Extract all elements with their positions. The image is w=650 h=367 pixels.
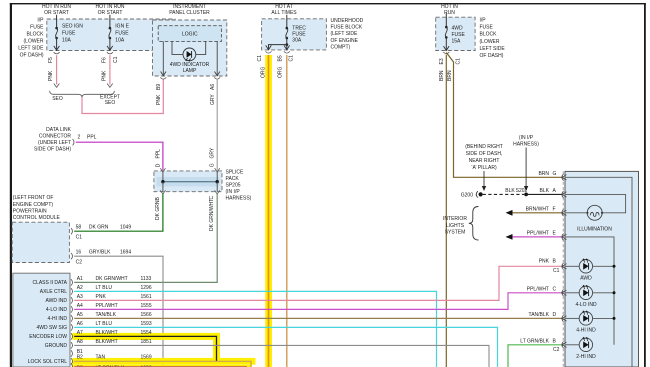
wire lamp branch left — [172, 41, 183, 54]
splice bus bar — [163, 181, 217, 183]
pin B C2 chevron — [562, 341, 567, 348]
svg-text:1561: 1561 — [141, 294, 152, 300]
svg-text:1694: 1694 — [120, 250, 131, 256]
svg-text:SPLICE: SPLICE — [226, 170, 244, 176]
wire BLK pin A internal to lamp — [565, 194, 626, 212]
pin C chevron — [562, 289, 567, 296]
splice C exit chevron — [215, 190, 220, 194]
svg-text:I/P: I/P — [37, 18, 44, 24]
highlight band bottom row — [73, 365, 253, 367]
fuse SEO IGN 10A — [55, 27, 58, 30]
svg-text:HARNESS): HARNESS) — [226, 196, 252, 202]
svg-text:ILLUMINATION: ILLUMINATION — [577, 227, 612, 233]
svg-text:(IN I/P: (IN I/P — [519, 135, 534, 141]
svg-text:1296: 1296 — [141, 285, 152, 291]
svg-text:RUN: RUN — [444, 10, 455, 16]
svg-text:A7: A7 — [77, 330, 83, 336]
svg-text:FUSE: FUSE — [62, 31, 76, 37]
arrow to interior lights F — [506, 210, 513, 216]
svg-text:FUSE: FUSE — [480, 25, 494, 31]
svg-text:LT GRN/BLK: LT GRN/BLK — [520, 338, 549, 344]
pin B1 module — [71, 350, 73, 356]
svg-text:(LOWER: (LOWER — [480, 39, 500, 45]
node splice G entry — [215, 168, 220, 172]
svg-text:DK GRN: DK GRN — [155, 200, 161, 220]
svg-text:GRY: GRY — [210, 147, 216, 158]
svg-text:PPL/WHT: PPL/WHT — [527, 230, 549, 236]
pin A chevron — [562, 191, 567, 198]
arrow to interior lights E — [506, 234, 513, 240]
svg-text:BLK/WHT: BLK/WHT — [96, 339, 118, 345]
pin G chevron — [562, 174, 567, 181]
svg-text:CONTROL MODULE: CONTROL MODULE — [13, 215, 61, 221]
wire PPL DLC to splice SP205 pin D — [76, 142, 163, 170]
svg-text:ORG: ORG — [260, 67, 266, 79]
svg-text:SEO IGN: SEO IGN — [62, 24, 83, 30]
fuse TREC 30A — [286, 27, 289, 30]
wire PPL/WHT 1555 A4 to switch pin C — [74, 293, 561, 310]
wire ORG highlighted from TREC C1 — [268, 55, 270, 367]
svg-text:1555: 1555 — [141, 303, 152, 309]
svg-text:F6: F6 — [102, 57, 108, 63]
connector chevron pin B9 — [160, 77, 166, 79]
fuse IGN E 10A — [109, 27, 112, 30]
svg-text:DK GRN/WHT: DK GRN/WHT — [96, 276, 128, 282]
svg-text:BRN: BRN — [447, 70, 453, 81]
wire TAN/BLK 1566 A5 to switch pin D — [74, 317, 561, 319]
svg-text:E3: E3 — [439, 58, 445, 64]
svg-text:1133: 1133 — [141, 276, 152, 282]
fuse 4WD 15A — [445, 26, 448, 29]
svg-text:(IN I/P: (IN I/P — [226, 189, 241, 195]
svg-text:(UNDER LEFT: (UNDER LEFT — [38, 140, 71, 146]
svg-text:BRN/WHT: BRN/WHT — [526, 206, 549, 212]
pin A2 module — [71, 288, 73, 294]
svg-text:PPL: PPL — [155, 149, 161, 159]
svg-text:F: F — [553, 206, 556, 212]
wire stub fuse IGN E — [109, 15, 111, 28]
svg-text:LT BLU: LT BLU — [96, 321, 113, 327]
wire BLK S202 to switch pin A — [526, 193, 561, 195]
wire branch to C1 — [269, 45, 287, 50]
pin B3 module (clipped) — [71, 363, 73, 367]
wire PNK from fuse F6 — [109, 55, 111, 84]
wire TAN 1569 B2 highlighted — [74, 361, 251, 367]
pin 2 DLC — [73, 139, 75, 145]
instrument panel cluster box U-cluster — [153, 20, 227, 76]
svg-text:FUSE BLOCK: FUSE BLOCK — [331, 25, 363, 31]
svg-text:GRY/BLK: GRY/BLK — [89, 250, 111, 256]
highlight band A7 BLK/WHT — [73, 333, 220, 340]
page border top — [10, 3, 646, 4]
svg-text:PNK: PNK — [156, 94, 162, 105]
svg-text:I/P: I/P — [480, 18, 487, 24]
splice pack SP205 box — [154, 171, 222, 192]
splice B exit chevron — [160, 190, 165, 194]
connector chevron under TREC left — [266, 51, 272, 53]
underhood fuse block box — [262, 19, 327, 50]
pin A6 module — [71, 324, 73, 330]
wire PPL/WHT to pin E — [513, 236, 562, 238]
svg-text:4-LO IND: 4-LO IND — [575, 302, 597, 308]
svg-text:10A: 10A — [115, 38, 125, 44]
wire BLK/WHT 1554 A7 highlighted — [74, 336, 216, 361]
svg-text:4WD: 4WD — [452, 26, 464, 32]
pin E chevron — [562, 234, 567, 241]
svg-text:LAMP: LAMP — [183, 68, 197, 74]
wire PNK from fuse F5 — [56, 55, 58, 84]
pin F chevron — [562, 209, 567, 216]
svg-text:BRN: BRN — [439, 70, 445, 81]
svg-text:LEFT SIDE: LEFT SIDE — [18, 46, 44, 52]
svg-text:2: 2 — [78, 135, 81, 141]
wire stub fuse SEO IGN — [56, 15, 58, 28]
svg-text:A6: A6 — [210, 84, 216, 90]
svg-text:4-HI IND: 4-HI IND — [48, 316, 68, 322]
svg-text:4-HI IND: 4-HI IND — [576, 328, 596, 334]
PCM box — [12, 222, 69, 262]
svg-text:BLOCK: BLOCK — [27, 32, 45, 38]
svg-text:LOCK SOL CTRL: LOCK SOL CTRL — [28, 359, 67, 365]
svg-text:1554: 1554 — [141, 330, 152, 336]
wire LT GRN/BLK 1693 pin B C2 down — [508, 345, 562, 367]
svg-text:D: D — [553, 312, 557, 318]
svg-text:CONNECTOR: CONNECTOR — [39, 134, 72, 140]
connector end EXCEPT SEO — [107, 84, 113, 88]
svg-text:DK GRN/WHT: DK GRN/WHT — [209, 199, 215, 231]
svg-text:58: 58 — [76, 225, 82, 231]
svg-text:C1: C1 — [113, 56, 119, 63]
svg-text:SEO: SEO — [52, 96, 63, 102]
svg-text:A3: A3 — [77, 294, 83, 300]
svg-text:PNK: PNK — [539, 259, 550, 265]
svg-text:SYSTEM: SYSTEM — [445, 229, 466, 235]
svg-text:15A: 15A — [452, 39, 462, 45]
svg-text:BRN: BRN — [538, 171, 549, 177]
svg-text:16: 16 — [76, 250, 82, 256]
svg-text:AWD: AWD — [580, 275, 592, 281]
wire BRN left branch down — [445, 55, 447, 367]
connector chevron under 4WD fuse — [443, 52, 449, 54]
svg-text:C1: C1 — [288, 55, 294, 62]
svg-text:A4: A4 — [77, 303, 83, 309]
svg-text:C1: C1 — [257, 55, 263, 62]
svg-text:GROUND: GROUND — [45, 343, 68, 349]
wire BRN right branch to switch pin G — [446, 53, 561, 178]
svg-text:ORG: ORG — [278, 67, 284, 79]
svg-text:CLASS II DATA: CLASS II DATA — [32, 280, 67, 286]
svg-text:A8: A8 — [77, 339, 83, 345]
svg-text:4-LO IND: 4-LO IND — [46, 307, 68, 313]
svg-text:TAN/BLK: TAN/BLK — [96, 312, 117, 318]
svg-text:1593: 1593 — [141, 321, 152, 327]
svg-text:SIDE OF DASH): SIDE OF DASH) — [34, 147, 71, 153]
svg-text:2-HI IND: 2-HI IND — [576, 354, 596, 360]
svg-text:G: G — [553, 171, 557, 177]
wire logic to pin A6 — [216, 41, 218, 75]
svg-text:C1: C1 — [553, 268, 560, 274]
pin A7 module — [71, 333, 73, 339]
svg-text:PNK: PNK — [48, 70, 54, 81]
svg-text:PPL: PPL — [87, 135, 97, 141]
node splice D entry — [160, 168, 165, 172]
wire DK GRN splice B to PCM 58 — [74, 194, 163, 232]
wire stub TREC fuse — [286, 15, 288, 28]
wire PNK merged to cluster pin B9 — [82, 79, 163, 114]
highlight band B2 TAN — [73, 358, 256, 365]
wire DK GRN/WHT splice C to module A1 — [74, 194, 217, 283]
svg-text:C2: C2 — [553, 347, 560, 353]
svg-text:FUSE: FUSE — [452, 32, 466, 38]
brace joining SEO / EXCEPT SEO — [50, 91, 115, 98]
pin B chevron — [562, 263, 567, 270]
brace interior lights — [469, 207, 479, 241]
svg-text:INTERIOR: INTERIOR — [443, 216, 467, 222]
svg-text:ALL TIMES: ALL TIMES — [271, 10, 297, 16]
wire ORG from TREC B5 — [286, 55, 288, 367]
svg-text:BLOCK: BLOCK — [480, 32, 498, 38]
svg-text:OF DASH): OF DASH) — [480, 53, 504, 59]
transfer case control module box — [13, 273, 70, 367]
LED AWD — [565, 265, 579, 267]
wire 1693 B3 clipped — [74, 366, 247, 367]
svg-text:S202: S202 — [516, 188, 528, 194]
svg-text:PACK: PACK — [226, 176, 240, 182]
svg-text:IGN E: IGN E — [115, 24, 129, 30]
svg-text:POWERTRAIN: POWERTRAIN — [13, 208, 47, 214]
svg-text:C2: C2 — [76, 259, 83, 265]
connector chevron under fuse 2 — [107, 52, 113, 54]
wire logic to pin B9 — [162, 41, 164, 75]
svg-text:PANEL CLUSTER: PANEL CLUSTER — [169, 10, 210, 16]
page border left — [10, 3, 12, 367]
wire GRY/BLK 1694 PCM 16 down — [74, 256, 163, 367]
wire BLK/WHT 1851 A8 — [74, 345, 489, 367]
svg-text:(LEFT SIDE: (LEFT SIDE — [331, 31, 359, 37]
svg-text:1566: 1566 — [141, 312, 152, 318]
highlight ORG wire (yellow marker) — [265, 55, 272, 367]
svg-text:FUSE: FUSE — [30, 25, 44, 31]
svg-text:GRY: GRY — [210, 94, 216, 105]
svg-text:LEFT SIDE: LEFT SIDE — [480, 46, 506, 52]
svg-text:A5: A5 — [77, 312, 83, 318]
svg-text:TAN: TAN — [96, 355, 106, 361]
svg-text:D: D — [155, 163, 161, 167]
pin A4 module — [71, 306, 73, 312]
connector chevron under TREC right — [284, 51, 290, 53]
svg-text:COMPT): COMPT) — [331, 44, 351, 50]
svg-text:C1: C1 — [455, 58, 461, 65]
svg-text:A6: A6 — [77, 321, 83, 327]
svg-text:1569: 1569 — [141, 355, 152, 361]
pin D chevron — [562, 315, 567, 322]
svg-text:C: C — [553, 286, 557, 292]
pin 58 PCM — [71, 228, 73, 234]
svg-text:(LEFT FRONT OF: (LEFT FRONT OF — [13, 195, 54, 201]
connector chevron under fuse 1 — [54, 52, 60, 54]
wire LT BLU 1593 A6 — [74, 327, 497, 367]
node TREC fuse output junction — [286, 38, 288, 50]
svg-text:FUSE: FUSE — [115, 31, 129, 37]
svg-text:10A: 10A — [62, 38, 72, 44]
svg-text:‘A’ PILLAR): ‘A’ PILLAR) — [471, 165, 497, 171]
LED 2-HI IND — [565, 344, 579, 346]
LED 4-HI IND — [565, 317, 579, 319]
svg-text:G: G — [210, 163, 216, 167]
pin A3 module — [71, 297, 73, 303]
connector chevron pin A6 — [214, 77, 220, 79]
logic box — [158, 26, 221, 42]
page border right — [644, 3, 646, 367]
svg-text:OF ENGINE: OF ENGINE — [331, 38, 359, 44]
svg-text:PNK: PNK — [102, 70, 108, 81]
svg-text:AXLE CTRL: AXLE CTRL — [40, 289, 67, 295]
node S202 — [524, 193, 528, 197]
pin 16 PCM — [71, 253, 73, 259]
svg-text:LIGHTS: LIGHTS — [446, 223, 465, 229]
connector dashed line — [562, 171, 564, 367]
4WD indicator lamp — [183, 48, 196, 61]
wire GRY cluster A6 to splice SP205 — [216, 79, 218, 170]
wire BRN pin G internal feed — [565, 177, 632, 367]
svg-text:B9: B9 — [156, 84, 162, 90]
svg-text:DATA LINK: DATA LINK — [46, 127, 71, 133]
svg-text:DK GRN: DK GRN — [89, 225, 109, 231]
svg-text:A1: A1 — [77, 276, 83, 282]
LED 4-LO IND — [565, 292, 579, 294]
wire PPL/WHT pin E internal bus — [565, 237, 614, 345]
svg-text:BLK: BLK — [505, 188, 515, 194]
svg-text:B5: B5 — [278, 55, 284, 61]
svg-text:G200: G200 — [461, 192, 473, 198]
I/P fuse block box (left) — [47, 19, 175, 51]
svg-text:(BEHIND RIGHT: (BEHIND RIGHT — [465, 144, 503, 150]
wire lamp branch right — [196, 41, 206, 54]
connector end SEO — [54, 84, 60, 88]
svg-text:4WD SW SIG: 4WD SW SIG — [36, 325, 67, 331]
svg-text:NEAR RIGHT: NEAR RIGHT — [469, 158, 500, 164]
svg-text:PPL/WHT: PPL/WHT — [96, 303, 118, 309]
wire BLK dashed G200 to S202 — [483, 193, 524, 195]
svg-text:LOGIC: LOGIC — [182, 32, 198, 38]
illumination lamp — [587, 205, 602, 220]
pin A8 module — [71, 342, 73, 348]
svg-text:PPL/WHT: PPL/WHT — [527, 286, 549, 292]
transfer case shift control switch box — [565, 171, 639, 367]
svg-text:SP205: SP205 — [226, 183, 241, 189]
pin A5 module — [71, 315, 73, 321]
svg-text:OF DASH): OF DASH) — [20, 53, 44, 59]
highlight band vertical A7 — [213, 333, 220, 365]
I/P fuse block box (right) — [436, 17, 475, 50]
svg-text:30A: 30A — [292, 38, 302, 44]
wire PNK 1561 A3 to switch pin B — [74, 266, 561, 300]
svg-text:BLK/WHT: BLK/WHT — [96, 330, 118, 336]
svg-text:HARNESS): HARNESS) — [513, 142, 539, 148]
svg-text:SEO: SEO — [105, 100, 116, 106]
svg-text:AWD IND: AWD IND — [46, 298, 68, 304]
svg-text:UNDERHOOD: UNDERHOOD — [331, 18, 364, 24]
svg-text:ENCODER LOW: ENCODER LOW — [29, 334, 67, 340]
svg-text:ENGINE COMPT): ENGINE COMPT) — [13, 202, 54, 208]
svg-text:PNK: PNK — [96, 294, 107, 300]
wire BRN/WHT to pin F — [513, 212, 562, 214]
svg-text:1049: 1049 — [120, 225, 131, 231]
pin A1 module — [71, 279, 73, 285]
svg-text:(LOWER: (LOWER — [24, 39, 44, 45]
svg-text:C1: C1 — [76, 234, 83, 240]
wire LT BLU 1296 A2 — [74, 291, 436, 367]
svg-text:SIDE OF DASH,: SIDE OF DASH, — [466, 151, 503, 157]
svg-text:F5: F5 — [48, 57, 54, 63]
svg-text:1851: 1851 — [141, 339, 152, 345]
svg-text:TAN/BLK: TAN/BLK — [529, 312, 550, 318]
wire stub 4WD fuse — [445, 13, 447, 27]
pin B2 module — [71, 358, 73, 364]
svg-text:LT BLU: LT BLU — [96, 285, 113, 291]
svg-text:BLK: BLK — [540, 188, 550, 194]
svg-text:B2: B2 — [77, 355, 83, 361]
svg-text:A2: A2 — [77, 285, 83, 291]
